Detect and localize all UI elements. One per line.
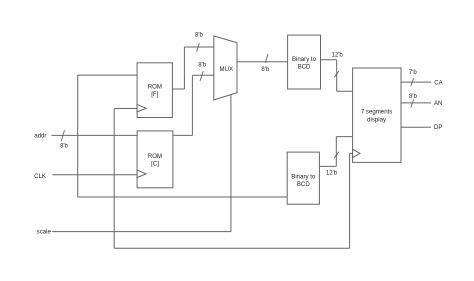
wire Binary-to-BCD 2 output bbox=[319, 165, 336, 167]
wire MUX input 1 bbox=[184, 46, 213, 48]
bus slash BCD1 output 12'b bbox=[334, 71, 339, 77]
bus slash addr 8'b bbox=[61, 130, 64, 141]
svg-text:12'b: 12'b bbox=[326, 171, 338, 177]
wire ROM F clock stub bbox=[114, 108, 137, 110]
ROM F clock triangle bbox=[137, 104, 146, 112]
bus slash MUX input 1 8'b bbox=[197, 43, 200, 52]
display clock triangle bbox=[353, 149, 360, 157]
svg-text:ROM: ROM bbox=[148, 84, 162, 91]
wire MUX output to Binary-to-BCD 1 bbox=[237, 61, 288, 63]
wire CLK bottom run bbox=[114, 247, 349, 249]
wire display clock stub bbox=[350, 152, 353, 154]
wire display data input 2 bbox=[336, 136, 352, 138]
svg-text:Binary to: Binary to bbox=[292, 56, 317, 63]
svg-text:8'b: 8'b bbox=[198, 63, 206, 69]
wire Binary-to-BCD 1 output vertical bbox=[336, 60, 338, 91]
bus slash MUX output 8'b bbox=[265, 54, 268, 63]
wire output DP bbox=[401, 126, 431, 128]
wire MUX select vertical bbox=[230, 95, 232, 232]
bus slash CA 7'b bbox=[411, 78, 414, 86]
svg-text:scale: scale bbox=[37, 229, 52, 236]
svg-text:addr: addr bbox=[34, 132, 46, 139]
svg-text:8'b: 8'b bbox=[195, 32, 203, 38]
svg-text:8'b: 8'b bbox=[409, 94, 417, 100]
svg-text:Binary to: Binary to bbox=[291, 174, 316, 181]
7 segments display block bbox=[353, 68, 401, 162]
wire to Binary-to-BCD 2 input bbox=[78, 196, 288, 198]
wire output CA bbox=[401, 81, 431, 83]
wire CLK branch vertical bbox=[113, 109, 115, 249]
svg-text:BCD: BCD bbox=[297, 181, 310, 188]
ROM C block bbox=[137, 131, 173, 188]
svg-text:8'b: 8'b bbox=[261, 67, 269, 73]
bus slash BCD2 output 12'b bbox=[334, 152, 339, 158]
wire scale horizontal bbox=[52, 231, 231, 233]
wire Binary-to-BCD 2 output vertical bbox=[335, 137, 337, 167]
wire ROM F output vertical bbox=[183, 47, 185, 89]
bus slash MUX input 2 8'b bbox=[200, 71, 203, 81]
svg-text:7 segments: 7 segments bbox=[361, 109, 393, 116]
wire ROM C output vertical bbox=[191, 75, 193, 135]
MUX trapezoid U-MUX bbox=[214, 36, 237, 100]
ROM F block bbox=[137, 63, 172, 118]
Binary to BCD 1 block bbox=[288, 35, 321, 89]
svg-text:DP: DP bbox=[434, 124, 442, 131]
wire ROM F data input bbox=[78, 74, 137, 76]
wire ROM C output bbox=[173, 134, 193, 136]
bus slash AN 8'b bbox=[411, 100, 414, 108]
svg-text:ROM: ROM bbox=[148, 153, 162, 160]
wire display clock vertical bbox=[349, 153, 351, 248]
wire ROM F output bbox=[172, 88, 184, 90]
svg-text:display: display bbox=[367, 116, 387, 123]
svg-text:[F]: [F] bbox=[151, 91, 158, 98]
wire addr horizontal bbox=[52, 134, 138, 136]
wire output AN bbox=[401, 102, 431, 104]
wire CLK horizontal bbox=[52, 174, 137, 176]
svg-text:12'b: 12'b bbox=[332, 52, 344, 58]
Binary to BCD 2 block bbox=[287, 152, 319, 204]
ROM C clock triangle bbox=[137, 170, 146, 177]
wire Binary-to-BCD 1 output bbox=[321, 59, 337, 61]
wire display data input 1 bbox=[337, 90, 353, 92]
svg-text:AN: AN bbox=[434, 100, 442, 107]
svg-text:MUX: MUX bbox=[220, 66, 234, 73]
svg-text:BCD: BCD bbox=[298, 63, 311, 70]
svg-text:CLK: CLK bbox=[34, 173, 46, 180]
svg-text:7'b: 7'b bbox=[409, 70, 417, 76]
wire MUX input 2 bbox=[192, 74, 213, 76]
wire addr branch vertical bbox=[77, 75, 79, 197]
svg-text:[C]: [C] bbox=[151, 160, 159, 167]
svg-text:CA: CA bbox=[434, 79, 443, 86]
svg-text:8'b: 8'b bbox=[60, 143, 68, 149]
